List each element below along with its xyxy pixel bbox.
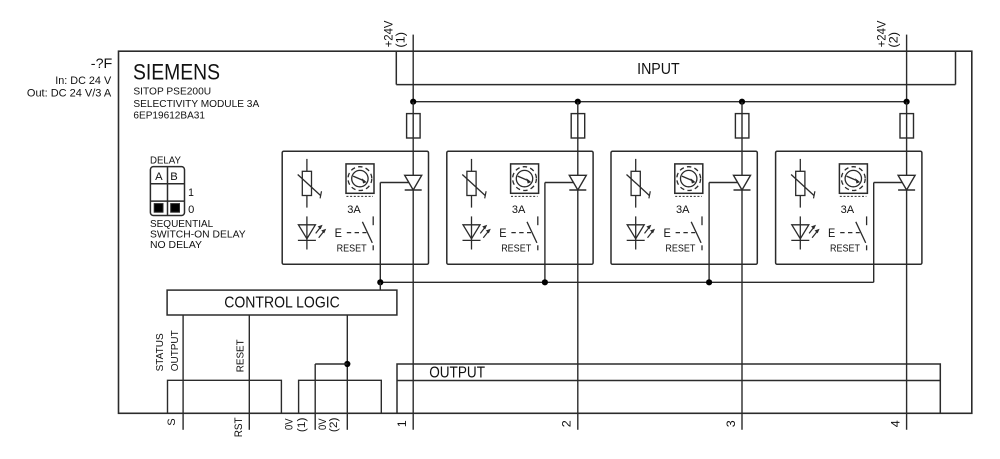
svg-text:INPUT: INPUT xyxy=(637,61,680,78)
svg-text:3A: 3A xyxy=(676,204,690,216)
svg-text:3A: 3A xyxy=(841,204,855,216)
svg-text:Out: DC 24 V/3 A: Out: DC 24 V/3 A xyxy=(27,87,112,99)
svg-text:E: E xyxy=(828,226,835,240)
svg-text:OUTPUT: OUTPUT xyxy=(169,330,181,371)
svg-text:SIEMENS: SIEMENS xyxy=(133,60,220,85)
svg-text:1: 1 xyxy=(395,420,409,427)
svg-text:DELAY: DELAY xyxy=(150,155,181,166)
svg-text:RESET: RESET xyxy=(830,244,860,255)
svg-text:(1): (1) xyxy=(296,418,308,433)
svg-text:B: B xyxy=(170,171,178,183)
svg-text:2: 2 xyxy=(560,420,574,427)
svg-text:STATUS: STATUS xyxy=(154,333,166,371)
svg-text:RESET: RESET xyxy=(235,339,247,372)
svg-text:E: E xyxy=(663,226,670,240)
svg-text:RESET: RESET xyxy=(337,244,367,255)
svg-text:NO DELAY: NO DELAY xyxy=(150,240,202,251)
svg-text:OUTPUT: OUTPUT xyxy=(429,365,485,382)
svg-text:+24V: +24V xyxy=(877,20,889,47)
svg-text:6EP19612BA31: 6EP19612BA31 xyxy=(133,110,205,121)
svg-text:0V: 0V xyxy=(283,418,295,430)
svg-text:3A: 3A xyxy=(347,204,361,216)
svg-text:A: A xyxy=(155,171,163,183)
svg-text:+24V: +24V xyxy=(383,20,395,47)
svg-text:(2): (2) xyxy=(328,418,340,433)
svg-text:SEQUENTIAL: SEQUENTIAL xyxy=(150,219,214,230)
svg-text:S: S xyxy=(166,418,178,425)
svg-text:3: 3 xyxy=(724,420,738,427)
svg-text:RST: RST xyxy=(233,417,245,437)
svg-text:0: 0 xyxy=(188,204,194,216)
svg-text:1: 1 xyxy=(188,187,194,199)
svg-text:3A: 3A xyxy=(512,204,526,216)
svg-text:E: E xyxy=(335,226,342,240)
svg-text:4: 4 xyxy=(888,420,902,427)
svg-text:(1): (1) xyxy=(395,32,407,48)
svg-text:SITOP PSE200U: SITOP PSE200U xyxy=(133,87,211,98)
svg-text:In: DC 24 V: In: DC 24 V xyxy=(55,75,112,87)
svg-text:E: E xyxy=(499,226,506,240)
svg-text:(2): (2) xyxy=(889,32,901,48)
svg-text:SWITCH-ON DELAY: SWITCH-ON DELAY xyxy=(150,230,246,241)
svg-text:CONTROL LOGIC: CONTROL LOGIC xyxy=(224,295,340,312)
svg-text:SELECTIVITY MODULE 3A: SELECTIVITY MODULE 3A xyxy=(133,99,259,110)
svg-text:RESET: RESET xyxy=(501,244,531,255)
svg-text:RESET: RESET xyxy=(665,244,695,255)
svg-text:-?F: -?F xyxy=(91,55,113,71)
